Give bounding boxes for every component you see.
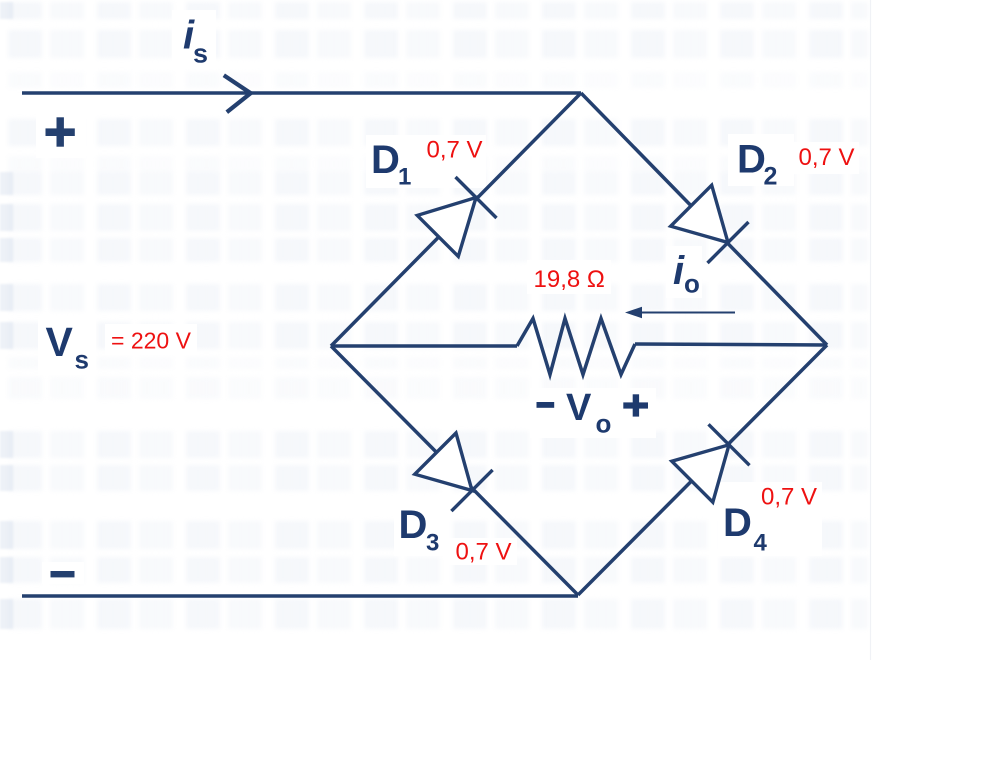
label - V_o + <box>537 387 649 439</box>
diode D2 <box>671 185 749 263</box>
label D3 <box>399 503 440 556</box>
wire bridge bottom-right branch <box>578 345 827 595</box>
label D4 <box>723 501 768 557</box>
svg-text:1: 1 <box>398 164 411 191</box>
diode D1 <box>417 177 496 256</box>
wire middle right <box>635 344 827 345</box>
svg-text:0,7 V: 0,7 V <box>799 144 855 171</box>
svg-text:= 220 V: = 220 V <box>111 328 192 354</box>
diode D3 <box>415 433 493 511</box>
svg-text:4: 4 <box>754 530 768 557</box>
white label backings <box>36 10 859 584</box>
wire middle left <box>331 344 517 348</box>
label V_s <box>46 319 89 375</box>
svg-text:2: 2 <box>764 163 778 191</box>
resistor R zigzag <box>517 319 635 375</box>
label i_s <box>183 13 208 68</box>
svg-text:19,8 Ω: 19,8 Ω <box>534 266 605 293</box>
svg-text:3: 3 <box>426 530 439 557</box>
svg-text:D: D <box>399 503 428 547</box>
minus sign source - <box>51 571 75 577</box>
label 0,7 V for D3 white backing <box>449 538 517 565</box>
svg-text:o: o <box>596 409 612 439</box>
diode D4 <box>672 424 750 502</box>
label D2 <box>737 137 777 190</box>
arrowhead i_s chevron <box>224 75 251 112</box>
faint ghost text bands (background bleed-through) <box>8 2 868 19</box>
faint slide edge line <box>870 0 872 660</box>
svg-text:D: D <box>723 501 752 545</box>
svg-text:D: D <box>737 137 766 181</box>
wire bottom horizontal <box>22 594 578 598</box>
svg-text:o: o <box>684 269 700 299</box>
svg-text:D: D <box>371 138 400 182</box>
svg-text:0,7 V: 0,7 V <box>761 484 817 511</box>
wire top horizontal <box>22 91 581 95</box>
plus sign source + <box>46 117 75 146</box>
wire bridge bottom-left branch <box>331 346 578 595</box>
svg-text:s: s <box>193 38 208 68</box>
wire bridge top-left branch <box>331 93 581 346</box>
label i_o <box>673 249 700 299</box>
svg-text:V: V <box>566 387 592 429</box>
wire bridge top-right branch <box>581 93 827 345</box>
svg-text:0,7 V: 0,7 V <box>427 137 483 164</box>
svg-text:V: V <box>46 319 74 365</box>
svg-text:s: s <box>75 345 89 375</box>
svg-text:0,7 V: 0,7 V <box>456 539 512 566</box>
arrow i_o <box>625 307 735 318</box>
label D1 <box>371 138 411 190</box>
